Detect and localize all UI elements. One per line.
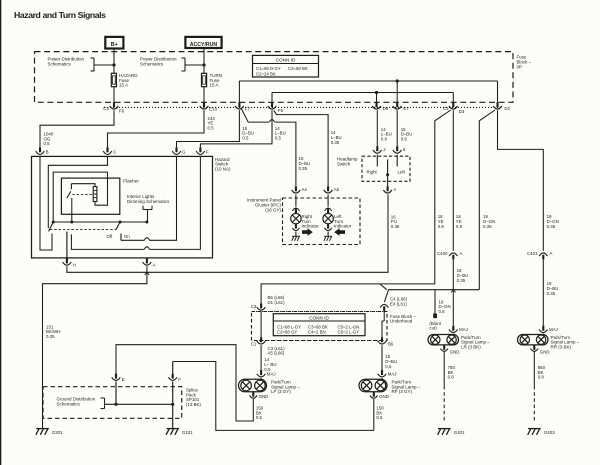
- park/turn signal lamp RR: [518, 334, 548, 345]
- wire 150 BK 0.5 (LF lamp ground path): [116, 345, 264, 421]
- svg-text:0.8: 0.8: [448, 375, 455, 380]
- RF lamp GND terminal: [370, 392, 389, 400]
- fuse block pin F6: [268, 102, 284, 113]
- svg-text:MAJ: MAJ: [549, 327, 558, 332]
- ground distribution schematic reference: [57, 397, 175, 409]
- svg-text:C4=2 BN: C4=2 BN: [308, 330, 326, 335]
- svg-text:F6: F6: [278, 108, 284, 113]
- headlamp switch Right label: [367, 170, 378, 175]
- IPC right turn indicator lamp: [291, 195, 301, 241]
- headlamp switch name label: [337, 157, 358, 167]
- wire 15 D-BU 0.5 (B6 to RF lamp): [382, 345, 397, 370]
- svg-text:0.35: 0.35: [483, 224, 492, 229]
- svg-text:E4 (L61): E4 (L61): [390, 302, 407, 307]
- svg-text:(16 GY): (16 GY): [265, 207, 281, 212]
- svg-text:Off: Off: [107, 234, 114, 239]
- wire hazard switch H output run (to 16 PU): [67, 195, 388, 276]
- svg-text:Schematics: Schematics: [57, 402, 81, 407]
- svg-text:D1 (L61): D1 (L61): [268, 300, 286, 305]
- svg-text:15 A: 15 A: [210, 83, 219, 88]
- power distribution schematic reference 2: [140, 57, 206, 71]
- svg-text:LF (3 GY): LF (3 GY): [271, 389, 291, 394]
- park/turn signal lamp LF: [238, 378, 266, 392]
- svg-text:0.35: 0.35: [547, 291, 556, 296]
- svg-text:(10 NA): (10 NA): [215, 167, 231, 172]
- wire 18 D-BU 0.35 (C400 to LR lamp): [451, 259, 468, 325]
- splice pack SP101 label: [186, 387, 201, 407]
- underhood fuse block connector C3 (B6/D1): [251, 295, 285, 310]
- headlamp switch pin 2: [373, 146, 386, 166]
- headlamp switch pin 6: [393, 146, 406, 166]
- inline connector C400 (18 YE to 18 D-BU): [437, 251, 463, 259]
- ground G101: [166, 429, 193, 435]
- svg-text:E7: E7: [403, 106, 409, 111]
- conn id table (I/P fuse block): [253, 55, 319, 77]
- svg-text:Indicator: Indicator: [334, 224, 352, 229]
- page title: [14, 10, 106, 20]
- underhood fuse block connector B6: [378, 337, 394, 346]
- svg-text:C2=68 GY: C2=68 GY: [277, 330, 297, 335]
- svg-text:C2=24 BK: C2=24 BK: [256, 71, 276, 76]
- wire HAZARD fuse to pin C3: [113, 87, 115, 103]
- wire hazard switch pin F internal: [71, 156, 200, 249]
- wire 15 D-BU 0.5 (pin F7 to hazard switch pin G): [177, 110, 255, 147]
- svg-text:0.5: 0.5: [242, 135, 249, 140]
- headlamp switch dashed outline: [362, 156, 410, 181]
- svg-text:C1: C1: [443, 106, 449, 111]
- svg-text:0.5: 0.5: [44, 141, 51, 146]
- splice MAJ (RR): [539, 326, 558, 333]
- svg-text:0.8: 0.8: [381, 136, 388, 141]
- wire 15 D-BU 0.35 (pin F7 to IPC pin A4): [242, 109, 311, 186]
- svg-text:C3: C3: [103, 106, 109, 111]
- wire 243 YE 0.5 (pin E10 to hazard switch pin C): [108, 110, 216, 147]
- svg-text:G401: G401: [454, 430, 465, 435]
- svg-text:Switch: Switch: [337, 162, 351, 167]
- internal bus wire B (F6/D8/C1-D3): [272, 91, 453, 102]
- hazard switch pin B: [36, 147, 49, 154]
- svg-text:0.35: 0.35: [457, 278, 466, 283]
- flasher contact arm: [67, 184, 72, 198]
- svg-text:Hazard and Turn Signals: Hazard and Turn Signals: [14, 10, 106, 20]
- svg-text:MAJ: MAJ: [267, 371, 276, 376]
- svg-text:0.8: 0.8: [456, 224, 463, 229]
- fuse block underhood dashed outline: [252, 312, 388, 341]
- svg-text:15 A: 15 A: [119, 83, 128, 88]
- svg-text:ACCY/RUN: ACCY/RUN: [190, 42, 218, 48]
- svg-text:A5 (L66): A5 (L66): [268, 351, 285, 356]
- ACCY/RUN feed terminal: [185, 37, 221, 48]
- wire 19 D-GN 0.35 (pin D2 diagonal feed): [479, 110, 495, 290]
- wire 14 L-BU 0.35 (pin F6 to IPC pin A5): [274, 111, 342, 187]
- svg-text:Schematics: Schematics: [48, 62, 72, 67]
- ground G403: [528, 429, 555, 435]
- instrument panel cluster name label: [247, 198, 282, 213]
- blunt cut stub 19 D-GN 0.8: [429, 290, 450, 331]
- park/turn signal lamp LF label: [271, 380, 300, 395]
- fuse block I/P name label: [517, 55, 532, 70]
- svg-text:Left: Left: [398, 170, 406, 175]
- ground G201: [36, 429, 63, 435]
- park/turn signal lamp RF label: [392, 380, 421, 395]
- svg-text:cut): cut): [429, 326, 437, 331]
- instrument panel cluster dashed outline: [283, 198, 361, 245]
- wire TURN fuse to pin E10: [203, 87, 205, 103]
- svg-text:I/P: I/P: [517, 64, 522, 69]
- svg-text:RF (3 GY): RF (3 GY): [392, 389, 413, 394]
- headlamp switch Left label: [398, 170, 406, 175]
- hazard switch name label: [215, 157, 231, 172]
- wire link to 19 D-GN run: [380, 284, 387, 290]
- svg-text:Indicator: Indicator: [302, 224, 320, 229]
- svg-text:E10: E10: [209, 107, 217, 112]
- wire 15 D-BU 0.8 (pin E7 to headlamp switch pin 6): [397, 110, 412, 146]
- svg-text:0.5: 0.5: [208, 125, 215, 130]
- wire 18 YE 0.8 (pin D3 straight feed to C400): [453, 110, 462, 251]
- svg-text:Schematics: Schematics: [140, 62, 164, 67]
- svg-text:Underhood: Underhood: [390, 319, 413, 324]
- svg-text:Right: Right: [367, 170, 378, 175]
- connector face dotted line (I/P fuse block): [104, 106, 502, 108]
- svg-text:0.35: 0.35: [299, 166, 308, 171]
- svg-text:0.5: 0.5: [256, 415, 263, 420]
- svg-text:B6: B6: [388, 342, 394, 347]
- hazard switch feed rail: [52, 221, 149, 224]
- svg-text:A: A: [153, 263, 156, 268]
- flasher actuation dashed link: [72, 194, 92, 196]
- underhood connector face dotted lines: [256, 312, 384, 341]
- svg-text:On: On: [124, 234, 130, 239]
- B+ feed terminal: [105, 37, 123, 49]
- wire 750 BK 0.8 (LR lamp ground): [444, 352, 455, 423]
- svg-text:C3: C3: [251, 304, 257, 309]
- wire 14 L-BU 0.8 (pin D8 to headlamp switch pin 2): [377, 110, 391, 146]
- wire run 18 YE to underhood pin C3: [261, 284, 435, 304]
- fuse block pin E10: [200, 102, 218, 111]
- hazard switch pin C: [103, 147, 116, 154]
- splice MAJ (RF): [378, 370, 397, 377]
- wire 150 BK 0.5 (RF lamp ground path): [173, 362, 385, 431]
- svg-text:G201: G201: [52, 430, 63, 435]
- svg-text:GND: GND: [450, 349, 460, 354]
- wire 18 YE 0.8 (pin C1 diagonal feed): [435, 110, 451, 284]
- svg-text:CONN ID: CONN ID: [276, 58, 296, 63]
- svg-text:MAJ: MAJ: [459, 327, 468, 332]
- IPC pin A4: [292, 186, 308, 193]
- svg-text:D2: D2: [504, 106, 510, 111]
- hazard switch pin F: [196, 147, 209, 154]
- connector F (splice pack feed): [168, 362, 181, 429]
- fuse block pin D2: [493, 102, 510, 111]
- park/turn signal lamp LR label: [461, 335, 490, 350]
- fuse block pin C1/D3: [443, 102, 465, 114]
- svg-text:0.8: 0.8: [401, 136, 408, 141]
- svg-text:D8: D8: [383, 106, 389, 111]
- svg-text:F: F: [178, 377, 181, 382]
- underhood fuse block connector C1 (C3/A5): [251, 337, 285, 356]
- park/turn signal lamp LR: [428, 334, 458, 345]
- wire 19 D-BU 0.35 (C401 to RR lamp): [543, 259, 558, 325]
- IPC right turn indicator label: [302, 214, 320, 229]
- IPC left turn indicator lamp: [323, 195, 333, 241]
- fuse block underhood name label: [390, 314, 417, 324]
- svg-text:C3=68 BK: C3=68 BK: [288, 66, 308, 71]
- headlamp switch wiper: [386, 160, 389, 187]
- svg-text:0.35: 0.35: [391, 224, 400, 229]
- svg-text:E: E: [122, 377, 125, 382]
- svg-text:0.5: 0.5: [376, 415, 383, 420]
- fuse block I/P dashed outline: [35, 52, 514, 103]
- ground distribution dashed outline: [43, 387, 182, 419]
- svg-text:F: F: [206, 149, 209, 154]
- wire C3 to C1 inside underhood fuse block: [260, 312, 262, 338]
- wire 14 L-BU 0.5 (pin F6 to hazard switch pin F): [200, 110, 285, 147]
- park/turn signal lamp RF: [359, 378, 387, 392]
- svg-text:MAJ: MAJ: [388, 371, 397, 376]
- svg-text:D3: D3: [459, 109, 465, 114]
- svg-text:C1: C1: [251, 342, 257, 347]
- svg-text:GND: GND: [379, 394, 389, 399]
- svg-text:B+: B+: [111, 42, 118, 48]
- flasher thermal element: [93, 187, 97, 202]
- interior lights dimming schematic reference: [127, 194, 170, 222]
- svg-text:0.35: 0.35: [547, 224, 556, 229]
- wire C4/E4 to B6 inside underhood fuse block: [382, 311, 384, 338]
- svg-text:0.35: 0.35: [46, 334, 55, 339]
- svg-text:A5: A5: [334, 187, 340, 192]
- svg-text:CONN ID: CONN ID: [309, 315, 329, 320]
- hazard switch pin G: [172, 147, 186, 154]
- fuse block pin E7: [393, 102, 409, 111]
- splice MAJ (LR): [449, 326, 468, 333]
- svg-text:0.35: 0.35: [331, 140, 340, 145]
- wire flasher output to feed rail: [71, 198, 73, 222]
- svg-text:C6=2 L-GY: C6=2 L-GY: [338, 330, 360, 335]
- IPC left turn arrow: [334, 228, 345, 236]
- fuse block pin D8: [372, 102, 389, 111]
- inline connector C401: [527, 251, 553, 259]
- flasher element top wire: [71, 184, 95, 187]
- wire B+ to HAZARD fuse: [113, 49, 115, 74]
- svg-text:F7: F7: [245, 107, 251, 112]
- flasher name label: [123, 179, 139, 184]
- svg-text:G403: G403: [544, 430, 555, 435]
- conn id table (underhood fuse block): [273, 314, 365, 336]
- svg-text:G101: G101: [182, 430, 193, 435]
- RR lamp GND terminal: [531, 345, 550, 355]
- wire hazard switch pin C internal: [48, 156, 107, 228]
- wire 1040 OG 0.5 (pin C3/F6 to hazard switch pin B): [40, 110, 114, 147]
- wire hazard switch pin G internal: [121, 156, 177, 240]
- wire ACCY/RUN to TURN fuse: [203, 48, 205, 73]
- wire run 19 D-GN to connector C4/E4: [384, 290, 479, 303]
- hazard switch On label and contact: [121, 234, 130, 241]
- svg-text:A: A: [460, 251, 463, 256]
- wire 16 PU 0.35 (pin 4 down): [391, 214, 400, 229]
- svg-text:RR (3 BK): RR (3 BK): [551, 344, 572, 349]
- svg-text:GND: GND: [540, 349, 550, 354]
- svg-text:LR (3 BK): LR (3 BK): [461, 344, 481, 349]
- power distribution schematic reference 1: [48, 57, 116, 71]
- hazard switch actuation dashed link: [50, 229, 116, 231]
- headlamp switch pin 4: [383, 186, 396, 193]
- fuse HAZARD 15 A: [111, 73, 138, 88]
- underhood fuse block connector C4/E4: [380, 297, 408, 311]
- svg-text:A4: A4: [302, 187, 308, 192]
- wire 19 D-GN 0.35 (pin D2 to inline connector C401): [498, 110, 559, 251]
- IPC right turn arrow: [302, 228, 313, 236]
- wire hazard switch pin B internal: [40, 156, 52, 250]
- hazard switch pin H: [63, 232, 76, 268]
- svg-text:C: C: [113, 149, 116, 154]
- flasher outline: [61, 178, 119, 214]
- wire 14 L-BU 0.5 (C1 to LF lamp): [261, 345, 276, 372]
- hazard switch outline: [32, 156, 213, 258]
- ground G401: [438, 429, 465, 435]
- internal bus wire A (F7/E7/D2): [239, 79, 497, 102]
- IPC left turn indicator label: [334, 214, 352, 229]
- splice MAJ (LF): [257, 370, 276, 377]
- svg-text:0.8: 0.8: [439, 309, 446, 314]
- svg-text:GND: GND: [259, 394, 269, 399]
- fuse block pin C3/F6: [103, 102, 125, 113]
- IPC pin A5: [324, 186, 340, 193]
- page edge artifact: [0, 0, 2, 465]
- fuse block pin F7: [235, 102, 250, 111]
- LR lamp GND terminal: [440, 345, 459, 355]
- hazard switch output arm: [116, 222, 120, 230]
- svg-text:B: B: [46, 149, 49, 154]
- svg-text:(12 BK): (12 BK): [186, 402, 201, 407]
- wire hazard switch A to ground run 151 BK/WH 0.35: [43, 266, 147, 428]
- svg-text:0.8: 0.8: [538, 375, 545, 380]
- connector E (ground distribution): [112, 374, 125, 405]
- park/turn signal lamp RR label: [551, 335, 580, 350]
- svg-text:G: G: [182, 149, 186, 154]
- svg-text:C400: C400: [437, 251, 448, 256]
- svg-text:0.8: 0.8: [438, 224, 445, 229]
- svg-text:Flasher: Flasher: [123, 179, 139, 184]
- svg-text:0.5: 0.5: [385, 364, 392, 369]
- wire 850 BK 0.8 (RR lamp ground): [534, 352, 545, 423]
- wire flasher element return (to switch pivot): [53, 172, 107, 221]
- hazard switch feed selector arm: [49, 222, 54, 231]
- svg-text:F6: F6: [119, 108, 125, 113]
- svg-text:C401: C401: [527, 251, 538, 256]
- svg-text:H: H: [73, 263, 76, 268]
- svg-text:Dimming Schematics: Dimming Schematics: [127, 199, 170, 204]
- hazard switch Off label: [107, 234, 114, 239]
- LF lamp GND terminal: [250, 392, 269, 400]
- svg-text:0.5: 0.5: [275, 135, 282, 140]
- svg-text:A: A: [550, 251, 553, 256]
- hazard switch pin A: [143, 258, 156, 267]
- fuse TURN 15 A: [202, 73, 223, 88]
